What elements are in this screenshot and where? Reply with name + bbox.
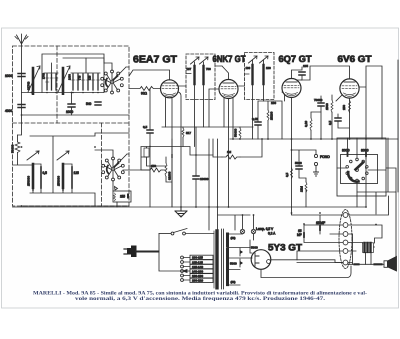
resistor 150 xyxy=(148,168,162,172)
pilot lamp 1 xyxy=(240,229,244,233)
long bus y127 xyxy=(162,126,253,128)
svg-text:MF: MF xyxy=(297,233,302,237)
resistor 0,1S xyxy=(310,118,312,131)
wire xyxy=(292,150,317,207)
capacitor 70000 xyxy=(318,103,324,106)
svg-text:195: 195 xyxy=(303,64,308,68)
svg-text:22740: 22740 xyxy=(27,81,31,90)
wire secondary taps xyxy=(228,234,254,285)
svg-text:0,5: 0,5 xyxy=(143,125,148,129)
svg-text:(50): (50) xyxy=(231,236,236,240)
wire xyxy=(149,89,151,208)
voltage selector contacts xyxy=(181,256,190,281)
wire xyxy=(213,139,262,157)
svg-text:32000: 32000 xyxy=(168,171,172,180)
transformer core xyxy=(222,229,224,289)
svg-text:15 MF: 15 MF xyxy=(316,221,325,225)
svg-text:0,3 A: 0,3 A xyxy=(268,232,276,236)
rotary switch S3 tone xyxy=(346,158,368,182)
tube V2 pins down xyxy=(224,98,233,207)
mains plug xyxy=(124,246,159,258)
wire xyxy=(238,60,264,139)
svg-text:125: 125 xyxy=(74,171,80,175)
wire xyxy=(337,135,396,196)
wire topcap V2 xyxy=(209,66,229,127)
long bus y207 xyxy=(13,206,367,208)
wire xyxy=(321,95,350,139)
resistor 25100 xyxy=(267,110,269,120)
svg-text:8000: 8000 xyxy=(361,149,369,153)
speaker bus xyxy=(348,263,384,265)
antenna xyxy=(15,34,28,135)
svg-text:0,5: 0,5 xyxy=(285,172,289,177)
svg-text:50000: 50000 xyxy=(234,128,238,137)
IF1 coil a xyxy=(191,57,200,84)
svg-text:2740: 2740 xyxy=(42,73,46,79)
svg-text:5000: 5000 xyxy=(251,246,258,250)
wire xyxy=(141,139,172,207)
resistor 90ohm xyxy=(129,87,160,91)
IF transformer T2 dashed box xyxy=(245,53,275,100)
wire xyxy=(250,240,252,258)
wire xyxy=(195,127,197,207)
svg-text:160-190: 160-190 xyxy=(192,274,203,278)
svg-text:107: 107 xyxy=(187,67,192,71)
resistor 50000m xyxy=(239,128,241,138)
svg-text:1000: 1000 xyxy=(68,74,72,80)
wire lamp feeds xyxy=(218,215,254,230)
svg-text:(50): (50) xyxy=(231,280,236,284)
speaker xyxy=(384,257,397,272)
wire xyxy=(159,234,183,272)
tube V3 6Q7 xyxy=(282,79,301,98)
svg-text:90Ω: 90Ω xyxy=(141,92,148,96)
capacitor 0,5m xyxy=(147,130,153,133)
resistor 250 xyxy=(349,100,351,113)
svg-text:vole normali, a 6,3 V d'accens: vole normali, a 6,3 V d'accensione. Medi… xyxy=(75,297,325,302)
wire xyxy=(22,114,130,116)
svg-text:150000: 150000 xyxy=(57,176,61,186)
tube V1 pins down xyxy=(166,92,182,207)
svg-text:1000: 1000 xyxy=(5,74,12,78)
svg-text:0,1S: 0,1S xyxy=(304,121,308,127)
capacitor 5000f xyxy=(296,166,302,169)
capacitor 10000 xyxy=(193,176,199,179)
svg-text:115-125: 115-125 xyxy=(192,260,203,264)
svg-text:6V6 GT: 6V6 GT xyxy=(338,54,373,64)
ground main xyxy=(175,207,187,217)
resistor 1M xyxy=(222,155,240,159)
grid top-cap wire V1 xyxy=(129,70,170,80)
tube V4 6V6 xyxy=(340,79,359,98)
resistor 1500 xyxy=(331,100,333,113)
svg-text:517: 517 xyxy=(186,131,191,135)
RF inner box xyxy=(42,54,104,93)
rotary switch S2 xyxy=(95,150,150,181)
rotary switch S1 xyxy=(101,63,129,94)
svg-text:25100: 25100 xyxy=(270,111,274,120)
svg-text:4000: 4000 xyxy=(5,109,12,113)
wire xyxy=(258,92,292,207)
svg-text:150000: 150000 xyxy=(27,176,31,186)
wire xyxy=(71,93,73,116)
capacitor 540 xyxy=(95,102,101,105)
svg-text:5000: 5000 xyxy=(295,161,302,165)
svg-text:250: 250 xyxy=(342,105,346,110)
svg-text:6EA7 GT: 6EA7 GT xyxy=(133,55,177,66)
wire rectifier to strip xyxy=(271,260,343,263)
terminal circles xyxy=(343,213,348,265)
capacitor 0,5r xyxy=(335,118,341,121)
svg-text:0,5: 0,5 xyxy=(43,171,48,175)
capacitor 0,15 xyxy=(255,122,261,125)
resistor 32000 xyxy=(165,163,167,176)
transformer secondary xyxy=(226,234,229,285)
svg-text:6NK7 GT: 6NK7 GT xyxy=(213,54,246,64)
svg-text:775: 775 xyxy=(78,75,82,80)
svg-text:8000: 8000 xyxy=(342,149,350,153)
svg-text:10000: 10000 xyxy=(200,177,209,181)
wire xyxy=(22,58,105,93)
svg-text:100: 100 xyxy=(266,66,271,70)
svg-text:100: 100 xyxy=(271,101,276,105)
wire mid cluster xyxy=(141,147,213,167)
wire terminal connections left xyxy=(292,207,344,263)
IF2 coil b xyxy=(260,56,269,84)
wire OT leads xyxy=(366,247,375,264)
transformer T-power primary xyxy=(214,231,217,288)
svg-text:140-160: 140-160 xyxy=(192,270,203,274)
svg-text:190-220: 190-220 xyxy=(192,279,203,283)
output transformer T-out xyxy=(363,243,374,253)
capacitor 1000b xyxy=(68,104,75,107)
tube V2 6NK7 xyxy=(219,80,238,99)
svg-text:5000: 5000 xyxy=(230,262,237,266)
wire right low vertical xyxy=(395,192,397,257)
coil L1 xyxy=(28,66,40,94)
wire mid-low connectors xyxy=(209,139,218,230)
IF transformer T1 dashed box xyxy=(186,54,215,100)
svg-text:12M: 12M xyxy=(300,186,304,192)
svg-text:115: 115 xyxy=(120,195,125,199)
svg-text:125: 125 xyxy=(88,75,92,80)
wire xyxy=(103,58,105,63)
svg-text:Lamp. 6,5 V: Lamp. 6,5 V xyxy=(256,227,274,231)
long bus y139 xyxy=(230,138,398,140)
capacitor 4000 xyxy=(18,105,25,108)
pilot lamp 2 xyxy=(251,229,255,233)
IF2 coil a xyxy=(249,56,258,84)
tube V1 6EA7 xyxy=(161,80,179,98)
svg-text:1500: 1500 xyxy=(325,103,329,110)
coil L2 xyxy=(58,66,70,94)
wire xyxy=(22,181,130,207)
capacitor C-ant 1000 xyxy=(18,74,25,77)
svg-text:100-115: 100-115 xyxy=(192,256,203,260)
svg-text:FONO: FONO xyxy=(320,155,330,159)
wire topcap V3 + capacitor 195 xyxy=(292,67,303,79)
resistor 50000L2 xyxy=(15,142,20,153)
resistor box 440 xyxy=(113,191,131,202)
wire right verticals low xyxy=(357,138,396,214)
tuner dashed box xyxy=(13,46,130,206)
tone control box xyxy=(337,138,386,196)
IF1 coil b xyxy=(200,57,209,84)
FONO jack xyxy=(314,154,331,176)
svg-text:6Q7 GT: 6Q7 GT xyxy=(279,54,313,64)
svg-text:50000: 50000 xyxy=(11,144,15,153)
svg-text:125-140: 125-140 xyxy=(192,265,203,269)
resistor 12M xyxy=(305,182,307,192)
wire terminal connections right xyxy=(348,196,389,264)
switch mains xyxy=(159,229,214,235)
terminal strip dashed outline xyxy=(339,210,352,269)
svg-text:0,5: 0,5 xyxy=(328,120,332,125)
svg-text:1000: 1000 xyxy=(66,110,73,114)
svg-text:100: 100 xyxy=(246,66,251,70)
wire xyxy=(179,62,204,147)
trimmer bank row xyxy=(47,74,98,90)
resistor 150b xyxy=(144,148,149,157)
wire bottom loop xyxy=(261,266,351,278)
right rail wires xyxy=(336,60,398,207)
rectifier V5 5Y3 xyxy=(251,250,271,270)
capacitor 125 xyxy=(71,167,73,188)
svg-text:0,15: 0,15 xyxy=(252,117,258,121)
coil L3 xyxy=(27,151,39,188)
voltage selector wiper xyxy=(183,270,187,273)
resistor 0,5f xyxy=(291,168,293,178)
svg-text:MARELLI - Mod. 9A 85 - Simile: MARELLI - Mod. 9A 85 - Simile al mod. 9A… xyxy=(33,292,368,297)
wire xyxy=(13,133,129,206)
coil L4 xyxy=(57,151,69,188)
wire topcap V4 xyxy=(301,66,350,80)
wire xyxy=(311,112,321,139)
capacitor 0,5L xyxy=(40,167,42,188)
voltage selector boxes xyxy=(190,255,213,283)
resistor 517 xyxy=(182,128,184,137)
svg-text:1M: 1M xyxy=(227,150,232,154)
svg-text:760: 760 xyxy=(206,67,211,71)
svg-text:540: 540 xyxy=(86,102,92,106)
